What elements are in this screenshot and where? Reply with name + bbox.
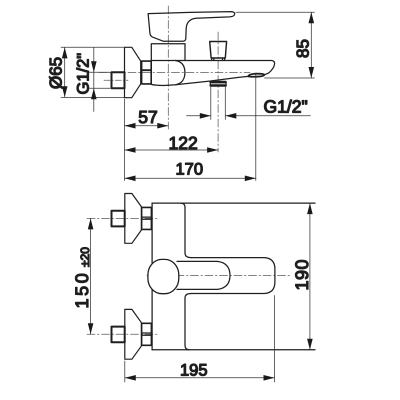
handle inner capsule — [177, 261, 230, 289]
handle outer capsule — [191, 258, 275, 294]
svg-text:195: 195 — [180, 362, 208, 380]
svg-text:G1/2": G1/2" — [264, 96, 308, 116]
dim 150 line — [90, 218, 92, 334]
body neck upper — [185, 208, 191, 258]
svg-text:57: 57 — [138, 107, 157, 127]
dim 57 line — [125, 125, 169, 127]
dim G1/2 outlet arrows — [200, 113, 237, 119]
dim 195 left extension — [124, 361, 126, 382]
centerline body axis — [99, 71, 250, 73]
dim 170 arrows — [125, 176, 256, 182]
body neck lower — [185, 294, 191, 346]
upper escutcheon — [125, 194, 142, 244]
lower wall nut — [142, 323, 152, 345]
lower escutcheon — [125, 309, 142, 359]
dim G1/2 outlet extension lines — [211, 87, 226, 120]
dim 85 line — [310, 12, 312, 78]
dim Ø65 line — [64, 48, 66, 98]
svg-text:G1/2": G1/2" — [75, 53, 93, 95]
body slab top edge + 190 extension — [152, 202, 315, 204]
dim 195 right extension — [274, 296, 276, 383]
dim 195 line — [125, 377, 275, 379]
svg-text:150: 150 — [72, 271, 92, 309]
dim 150 arrows — [88, 218, 94, 334]
wall plane extension line — [124, 99, 126, 181]
cartridge dome — [148, 259, 179, 293]
svg-text:170: 170 — [176, 160, 204, 178]
body capsule — [151, 61, 185, 86]
centerline upper connection axis — [87, 217, 158, 219]
dim 122 arrows — [125, 147, 219, 153]
dim Ø65 extension lines — [61, 47, 125, 97]
dim 85 arrows — [309, 12, 315, 78]
dim 190 arrows — [307, 203, 313, 350]
nut facet lines — [142, 69, 152, 71]
dim 57 arrows — [125, 123, 169, 129]
spout outlet extension line — [255, 74, 257, 181]
dim 195 arrows — [125, 375, 275, 381]
diverter knob — [210, 42, 227, 59]
shower outlet flange — [210, 81, 226, 86]
dim 122 line — [125, 149, 219, 151]
cartridge housing column — [151, 44, 185, 61]
svg-text:190: 190 — [292, 259, 312, 291]
centerline cartridge axis — [167, 6, 169, 129]
lower inlet pipe — [112, 327, 125, 343]
diverter knob feet — [212, 58, 225, 60]
dim G1/2 outlet leader — [187, 115, 311, 117]
svg-text:Ø65: Ø65 — [47, 57, 66, 89]
centerline lower connection axis — [87, 333, 158, 335]
svg-text:122: 122 — [169, 133, 198, 153]
body neck lower corner — [185, 345, 189, 349]
spout bottom edge — [176, 76, 249, 84]
upper nut facet lines — [142, 217, 152, 219]
dim G1/2 inlet arrows — [91, 61, 97, 99]
svg-text:85: 85 — [294, 39, 313, 58]
dim 85 extension top — [236, 11, 315, 13]
centerline handle axis — [147, 275, 292, 277]
dim G1/2 inlet line — [93, 48, 95, 112]
escutcheon (side view) — [125, 47, 141, 97]
centerline pipe axis — [104, 79, 128, 81]
svg-text:±20: ±20 — [78, 247, 92, 267]
dim 150 text — [72, 247, 92, 309]
upper wall nut — [142, 207, 152, 229]
centerline diverter axis — [217, 32, 219, 152]
spout outlet lens — [248, 74, 264, 77]
body neck upper corner — [181, 203, 185, 207]
body slab left edge — [151, 203, 153, 350]
lever handle — [148, 12, 235, 42]
body slab bottom edge + 190 extension — [152, 349, 315, 351]
dim 190 line — [309, 203, 311, 350]
dim G1/2 inlet extension lines — [90, 72, 111, 88]
dim 170 line — [125, 177, 256, 179]
dim 85 extension bottom — [265, 77, 315, 79]
wall nut (side view) — [142, 61, 152, 84]
dim Ø65 arrows — [62, 47, 68, 97]
spout top edge — [151, 61, 274, 75]
inlet pipe G1/2 — [112, 72, 125, 88]
upper inlet pipe — [112, 211, 125, 227]
lower nut facet lines — [142, 333, 152, 335]
